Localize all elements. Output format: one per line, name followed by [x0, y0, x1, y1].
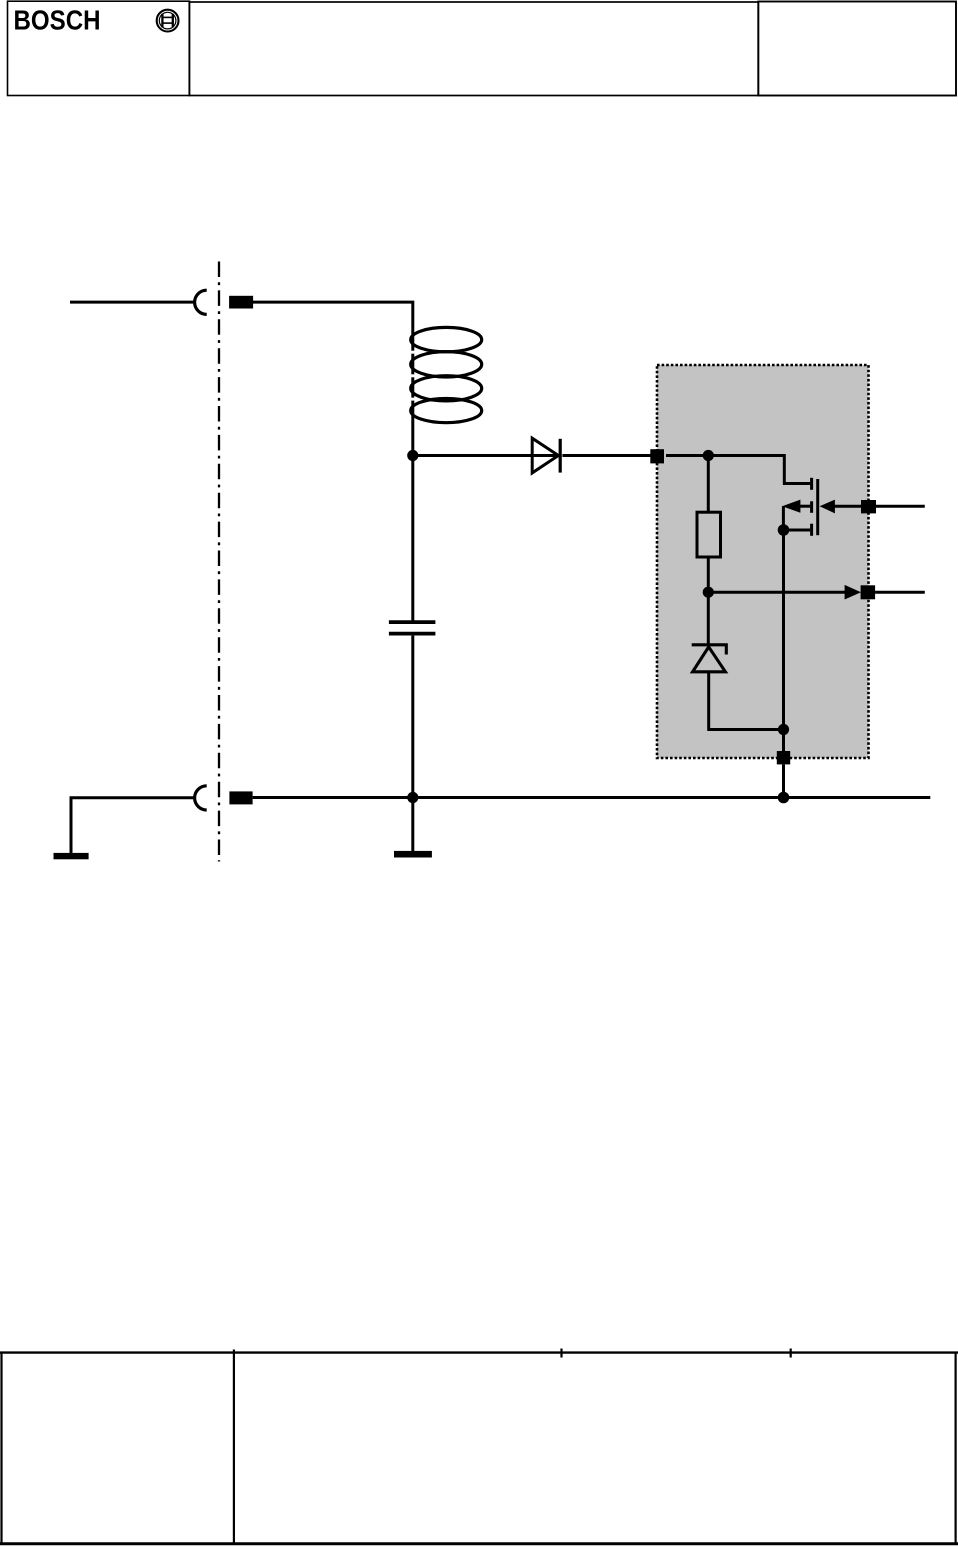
ground symbol mid [394, 851, 432, 858]
wire junction to diode [413, 454, 558, 457]
terminal pin top [229, 296, 253, 309]
transistor Q1 gate bar [816, 479, 819, 535]
ground rail left segment [71, 798, 195, 853]
footer divider [233, 1350, 235, 1546]
output wire with arrow [708, 591, 846, 594]
arrow head (to output pin) [845, 585, 861, 600]
ECU pin square (ground pin) [777, 751, 790, 764]
node: source/zener junction [778, 724, 789, 735]
header middle cell [189, 2, 758, 96]
svg-text:BOSCH: BOSCH [14, 5, 101, 36]
dash-dot boundary line [218, 262, 220, 862]
wire resistor to node [707, 556, 710, 592]
header right cell [758, 2, 956, 96]
body stub with arrow [795, 505, 810, 508]
transistor Q1 channel segments [810, 478, 813, 536]
capacitor C1 top plate [389, 620, 436, 624]
ECU pin square (input) [650, 449, 664, 463]
injector coil L1 [411, 327, 482, 422]
body arrow [782, 500, 800, 513]
zener diode Z1 triangle [693, 647, 726, 672]
wire diode to ECU pin [562, 454, 652, 457]
header left cell (BOSCH box) [8, 1, 190, 95]
wire to coil [253, 302, 413, 329]
wire zener to bottom rail of box [709, 672, 784, 730]
resistor R1 [697, 512, 721, 557]
wire battery+ left [70, 301, 195, 304]
node: capacitor/ground junction [407, 792, 418, 803]
zener diode Z1 cathode bar [692, 645, 727, 655]
ECU pin square (gate drive input) [861, 500, 876, 513]
MOSFET source line down [782, 530, 785, 752]
wire node to resistor [707, 456, 710, 513]
gate arrow [820, 500, 835, 514]
wire gate right [876, 505, 925, 508]
ground stub mid [411, 798, 414, 852]
wire node to zener [707, 592, 710, 645]
Bosch armature logo [157, 10, 179, 32]
ECU pin square (monitor output) [861, 585, 876, 599]
connector top [195, 290, 207, 314]
diode D1 [532, 438, 558, 473]
footer tick 2 [790, 1349, 792, 1358]
source stub [784, 529, 811, 532]
wire capacitor to ground rail [411, 636, 414, 798]
node: source/body junction [778, 524, 790, 536]
footer top rule [0, 1351, 958, 1353]
footer right border [954, 1352, 956, 1545]
body-source link [782, 506, 785, 530]
footer tick 1 [560, 1349, 562, 1358]
node: coil/diode/cap junction [407, 450, 418, 461]
ECU dotted box (gray) [657, 365, 869, 758]
gate wire [833, 505, 861, 508]
node: ECU ground junction [778, 792, 790, 804]
footer left border [0, 1352, 2, 1545]
footer bottom rule [0, 1542, 958, 1545]
ground rail main [253, 796, 931, 799]
terminal pin bottom [229, 791, 252, 804]
diode D1 cathode bar [559, 439, 562, 473]
wire output right [875, 591, 925, 594]
wire pin to ground rail [782, 764, 785, 797]
ground symbol left [54, 853, 89, 859]
wire pin to node [666, 454, 708, 457]
node: drain/resistor junction [703, 450, 714, 461]
wire coil to junction and capacitor [411, 329, 414, 621]
capacitor C1 bottom plate [389, 632, 436, 636]
coil crossing white breaks [411, 351, 416, 401]
node: resistor/zener/output junction [703, 587, 714, 598]
connector bottom [195, 786, 207, 810]
wire to MOSFET drain [708, 456, 810, 484]
